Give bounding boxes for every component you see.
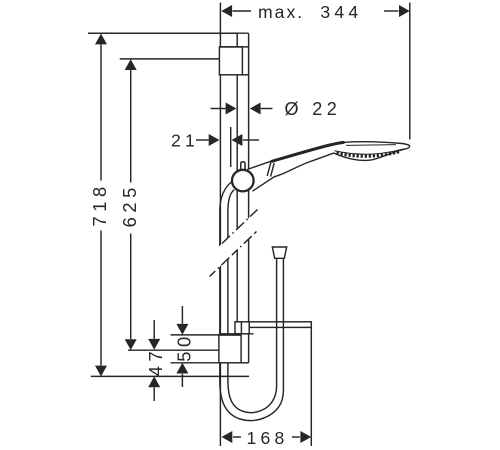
extension line for 21 (hose axis) bbox=[230, 127, 232, 167]
extension line y=335 (50 top) bbox=[171, 334, 220, 336]
svg-text:718: 718 bbox=[89, 182, 110, 226]
bottom wall reference line y=376 bbox=[91, 375, 249, 377]
extension line bottom bracket centre y=350 bbox=[128, 349, 219, 351]
slider knob bbox=[232, 170, 254, 192]
extension line for 168 right (from supply pipe end) bbox=[310, 328, 312, 447]
dimension max. 344 top bbox=[221, 5, 409, 17]
dimension 718 left bbox=[95, 34, 107, 377]
top wall bracket bbox=[219, 47, 249, 75]
svg-text:21: 21 bbox=[171, 130, 199, 150]
top extension line y=33 (top of rail to 718) bbox=[88, 32, 237, 34]
hand shower body white fill (no stroke) bbox=[244, 142, 410, 191]
outlet elbow block at rail bottom bbox=[235, 322, 249, 334]
extension line y=59 (top bracket centre to 625) bbox=[120, 58, 219, 60]
hand shower outline (open path) bbox=[247, 142, 409, 191]
svg-text:344: 344 bbox=[320, 2, 362, 22]
hose nut (conical, top of right hose end) bbox=[272, 247, 286, 258]
svg-text:Ø 22: Ø 22 bbox=[285, 99, 342, 119]
supply pipe (horizontal, bottom right) bbox=[249, 322, 311, 328]
extension line right of max.344 (to shower head tip) bbox=[409, 3, 411, 140]
dimension 625 bbox=[125, 59, 137, 350]
rail break cut band (white) bbox=[210, 209, 259, 277]
wall extension line (left of max.344, runs to bottom 168 dim) bbox=[219, 3, 221, 447]
dimension 47 bbox=[148, 320, 160, 401]
shower rail (vertical bar) bbox=[88, 33, 249, 363]
hose (left drop from hand shower, U-turn, right rise to nut) bbox=[220, 182, 284, 421]
svg-text:47: 47 bbox=[145, 347, 166, 377]
extension line y=363 (50 bottom) bbox=[171, 362, 220, 364]
svg-text:625: 625 bbox=[119, 183, 140, 227]
break line upper (dash-dot) bbox=[222, 210, 258, 244]
head top thick contour bbox=[271, 142, 345, 161]
break line lower (dash-dot) bbox=[210, 232, 257, 277]
dimension 50 bbox=[176, 306, 188, 387]
spray nozzle band bbox=[335, 149, 404, 156]
bottom wall bracket bbox=[219, 335, 249, 363]
dimension diameter 22 bbox=[211, 103, 273, 115]
shelf line under elbow bbox=[219, 333, 254, 335]
head inner face line bbox=[346, 144, 396, 147]
svg-text:50: 50 bbox=[173, 332, 194, 362]
svg-text:168: 168 bbox=[247, 428, 289, 448]
handle joint ring bbox=[267, 162, 274, 176]
dimension 168 bottom bbox=[222, 431, 312, 443]
svg-text:max.: max. bbox=[258, 2, 304, 22]
slider pin (on top of knob) bbox=[241, 162, 245, 172]
